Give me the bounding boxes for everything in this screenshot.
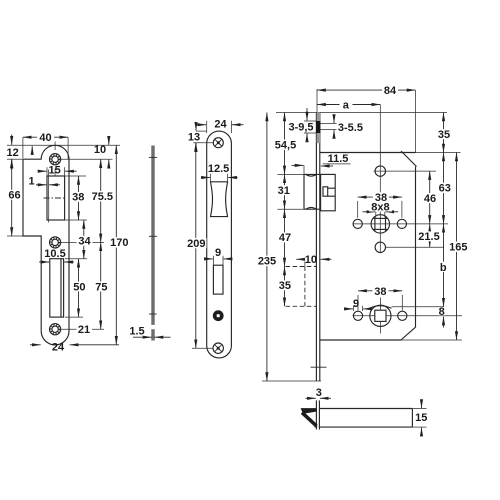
dim 38 spindle: [357, 295, 359, 311]
faceplate side strip: [315, 113, 317, 382]
extension line latch top right: [65, 175, 86, 177]
bottom screw slot tick: [311, 366, 327, 368]
latch bar: [319, 409, 412, 428]
faceplate latch window: [211, 182, 228, 217]
dim 8: [443, 317, 445, 328]
extension line mid hole: [61, 241, 104, 243]
dim 11,5: [323, 163, 351, 165]
strike plate bottom screw hole: [50, 324, 61, 335]
strike plate middle screw hole: [50, 237, 61, 248]
dim 15: [46, 167, 48, 176]
extension line deadbolt bottom right: [65, 316, 83, 318]
latch guide box: [321, 174, 336, 210]
extension line bottom hole / 21: [62, 328, 105, 330]
vertical centerline upper: [379, 105, 381, 253]
svg-text:50: 50: [73, 281, 85, 293]
dim 35 top right: [443, 113, 445, 153]
case bottom edge: [320, 339, 401, 341]
top hole vertical centerline: [54, 142, 56, 151]
latch spindle detail: [323, 187, 335, 196]
small arrow inside lip: [31, 146, 33, 155]
latch extension lines left: [278, 173, 305, 175]
svg-text:165: 165: [449, 242, 467, 254]
dim 47: [284, 209, 286, 266]
faceplate outline: [207, 131, 232, 358]
corner cut top right: [401, 151, 417, 167]
svg-text:3-5.5: 3-5.5: [338, 122, 363, 134]
svg-text:8: 8: [439, 306, 445, 318]
svg-text:35: 35: [438, 129, 450, 141]
svg-text:a: a: [343, 99, 350, 111]
svg-text:8x8: 8x8: [371, 201, 389, 213]
svg-text:34: 34: [78, 236, 91, 248]
wc screw hole right: [398, 311, 407, 320]
svg-text:10: 10: [305, 254, 317, 266]
svg-text:66: 66: [8, 190, 20, 202]
extension line hole center left: [7, 158, 23, 160]
svg-text:24: 24: [214, 118, 227, 130]
lock case outline top: [320, 152, 416, 154]
vertical centerline lower: [379, 298, 381, 334]
faceplate deadbolt window: [213, 265, 223, 294]
dim 170: [115, 145, 117, 344]
latch bolt side: [304, 174, 321, 209]
dim 66: [11, 159, 13, 236]
latch opening centerline: [44, 197, 67, 199]
dim 12.5: [210, 174, 212, 182]
svg-text:209: 209: [187, 238, 205, 250]
lip bend line: [47, 170, 49, 223]
svg-text:15: 15: [415, 412, 427, 424]
strike plate outline: [23, 145, 69, 345]
svg-text:21.5: 21.5: [418, 231, 439, 243]
dim 21.5: [429, 224, 431, 247]
svg-text:3: 3: [316, 387, 322, 399]
dim 1: [36, 184, 47, 186]
svg-text:24: 24: [52, 341, 65, 353]
lower fixing hole: [375, 242, 385, 252]
top hole extension: [374, 170, 437, 172]
strip tick middle: [149, 235, 157, 237]
svg-text:12.5: 12.5: [208, 163, 229, 175]
dim 10 deadbolt: [296, 258, 305, 260]
dim 35 deadbolt: [284, 267, 286, 307]
hub cap extension: [392, 306, 444, 308]
svg-text:170: 170: [110, 237, 128, 249]
svg-text:11.5: 11.5: [328, 153, 349, 165]
svg-text:9: 9: [215, 247, 221, 259]
horizontal centerline spindle: [353, 315, 463, 317]
dim 38 left: [78, 176, 80, 220]
extension line deadbolt top right: [65, 258, 87, 260]
svg-text:13: 13: [188, 131, 200, 143]
svg-text:54,5: 54,5: [275, 139, 296, 151]
dim 165: [456, 153, 458, 341]
lower hole extension: [386, 246, 445, 248]
svg-text:10.5: 10.5: [44, 248, 65, 260]
dim 54,5: [284, 113, 286, 175]
dim 8x8: [375, 212, 377, 217]
dim 15: [412, 408, 426, 410]
dim 209: [192, 347, 213, 349]
case right edge: [415, 167, 417, 328]
faceplate top extension line: [276, 112, 447, 114]
dim 9 spindle: [352, 306, 354, 311]
dim 38 follower: [357, 201, 359, 218]
dim a: [317, 104, 380, 106]
extension line top edge: [7, 144, 120, 146]
svg-text:12: 12: [6, 147, 18, 159]
extension 24 left: [206, 121, 208, 133]
strike plate top screw hole: [50, 154, 61, 165]
faceplate center fixing dot: [213, 310, 224, 321]
strip body: [151, 146, 153, 325]
deadbolt inner edge line: [60, 259, 62, 317]
dim 40: [23, 136, 68, 138]
dim 235: [266, 113, 268, 382]
extension 40 left: [22, 137, 24, 158]
svg-text:1.5: 1.5: [129, 325, 144, 337]
extension line lip bottom: [7, 235, 23, 237]
svg-text:40: 40: [39, 132, 51, 144]
svg-text:10: 10: [94, 144, 106, 156]
dim 1.5: [133, 336, 152, 338]
faceplate top screw: [213, 138, 223, 148]
hub cap arc: [369, 306, 391, 309]
dim 10.5: [39, 261, 49, 263]
svg-text:21: 21: [78, 324, 90, 336]
dim 46: [429, 171, 431, 224]
deadbolt thrown dashed outline: [286, 267, 317, 307]
svg-text:35: 35: [279, 280, 291, 292]
svg-text:38: 38: [72, 192, 84, 204]
dim 3: [306, 397, 316, 399]
svg-text:63: 63: [439, 183, 451, 195]
latch opening rectangle: [47, 176, 65, 220]
dim 3-9,5: [306, 108, 308, 121]
adjustable screw slot (black): [316, 121, 320, 133]
dim 12: [11, 135, 13, 145]
adjustable range band (gray): [317, 113, 320, 144]
dim 24 faceplate: [195, 124, 206, 126]
label 21: [77, 324, 93, 334]
svg-text:9: 9: [353, 298, 359, 310]
detail faceplate strip: [315, 400, 317, 429]
strip tick top: [149, 156, 157, 158]
handle screw hole left: [353, 219, 362, 228]
top fixing hole: [375, 166, 385, 176]
slot ticks left: [304, 120, 316, 122]
svg-text:31: 31: [278, 185, 290, 197]
dim 31: [284, 174, 286, 209]
strip tick bottom: [149, 313, 157, 315]
svg-text:46: 46: [424, 193, 436, 205]
dim 34: [83, 220, 85, 259]
spindle circle: [370, 305, 391, 326]
svg-text:15: 15: [48, 165, 60, 177]
latch head bevel: [301, 408, 317, 414]
dim b: [443, 224, 445, 307]
horizontal centerline follower: [353, 223, 449, 225]
dim 9 faceplate: [212, 256, 214, 265]
svg-text:b: b: [440, 262, 447, 274]
dim 50: [78, 259, 80, 317]
dim 13: [196, 130, 207, 132]
dim 3-5,5: [333, 116, 335, 124]
svg-text:1: 1: [28, 175, 34, 187]
svg-text:47: 47: [279, 232, 291, 244]
svg-text:38: 38: [374, 286, 386, 298]
follower square: [373, 217, 387, 231]
svg-text:235: 235: [258, 256, 276, 268]
dim 75.5: [100, 159, 102, 242]
slot ticks right: [320, 123, 336, 125]
dim 10 left view: [108, 137, 110, 145]
follower circle: [371, 215, 389, 233]
dim 24 strike: [30, 344, 41, 346]
wc screw hole left: [353, 311, 362, 320]
svg-text:75: 75: [95, 281, 107, 293]
spindle square: [375, 310, 386, 321]
deadbolt opening rectangle: [50, 259, 64, 317]
corner cut bottom right: [401, 327, 416, 340]
dim 75: [100, 242, 102, 329]
svg-text:84: 84: [384, 85, 397, 97]
faceplate bottom screw: [213, 343, 223, 353]
faceplate bottom extension line: [262, 380, 321, 382]
svg-text:75.5: 75.5: [92, 191, 113, 203]
dim 84: [415, 90, 417, 152]
extension 24 right: [230, 121, 232, 133]
extension 40 right: [67, 137, 69, 159]
extension line hole center right: [61, 158, 113, 160]
handle screw hole right: [397, 219, 406, 228]
svg-text:3-9,5: 3-9,5: [288, 122, 313, 134]
dim 63: [443, 153, 445, 224]
extension line latch bottom right: [65, 219, 87, 221]
